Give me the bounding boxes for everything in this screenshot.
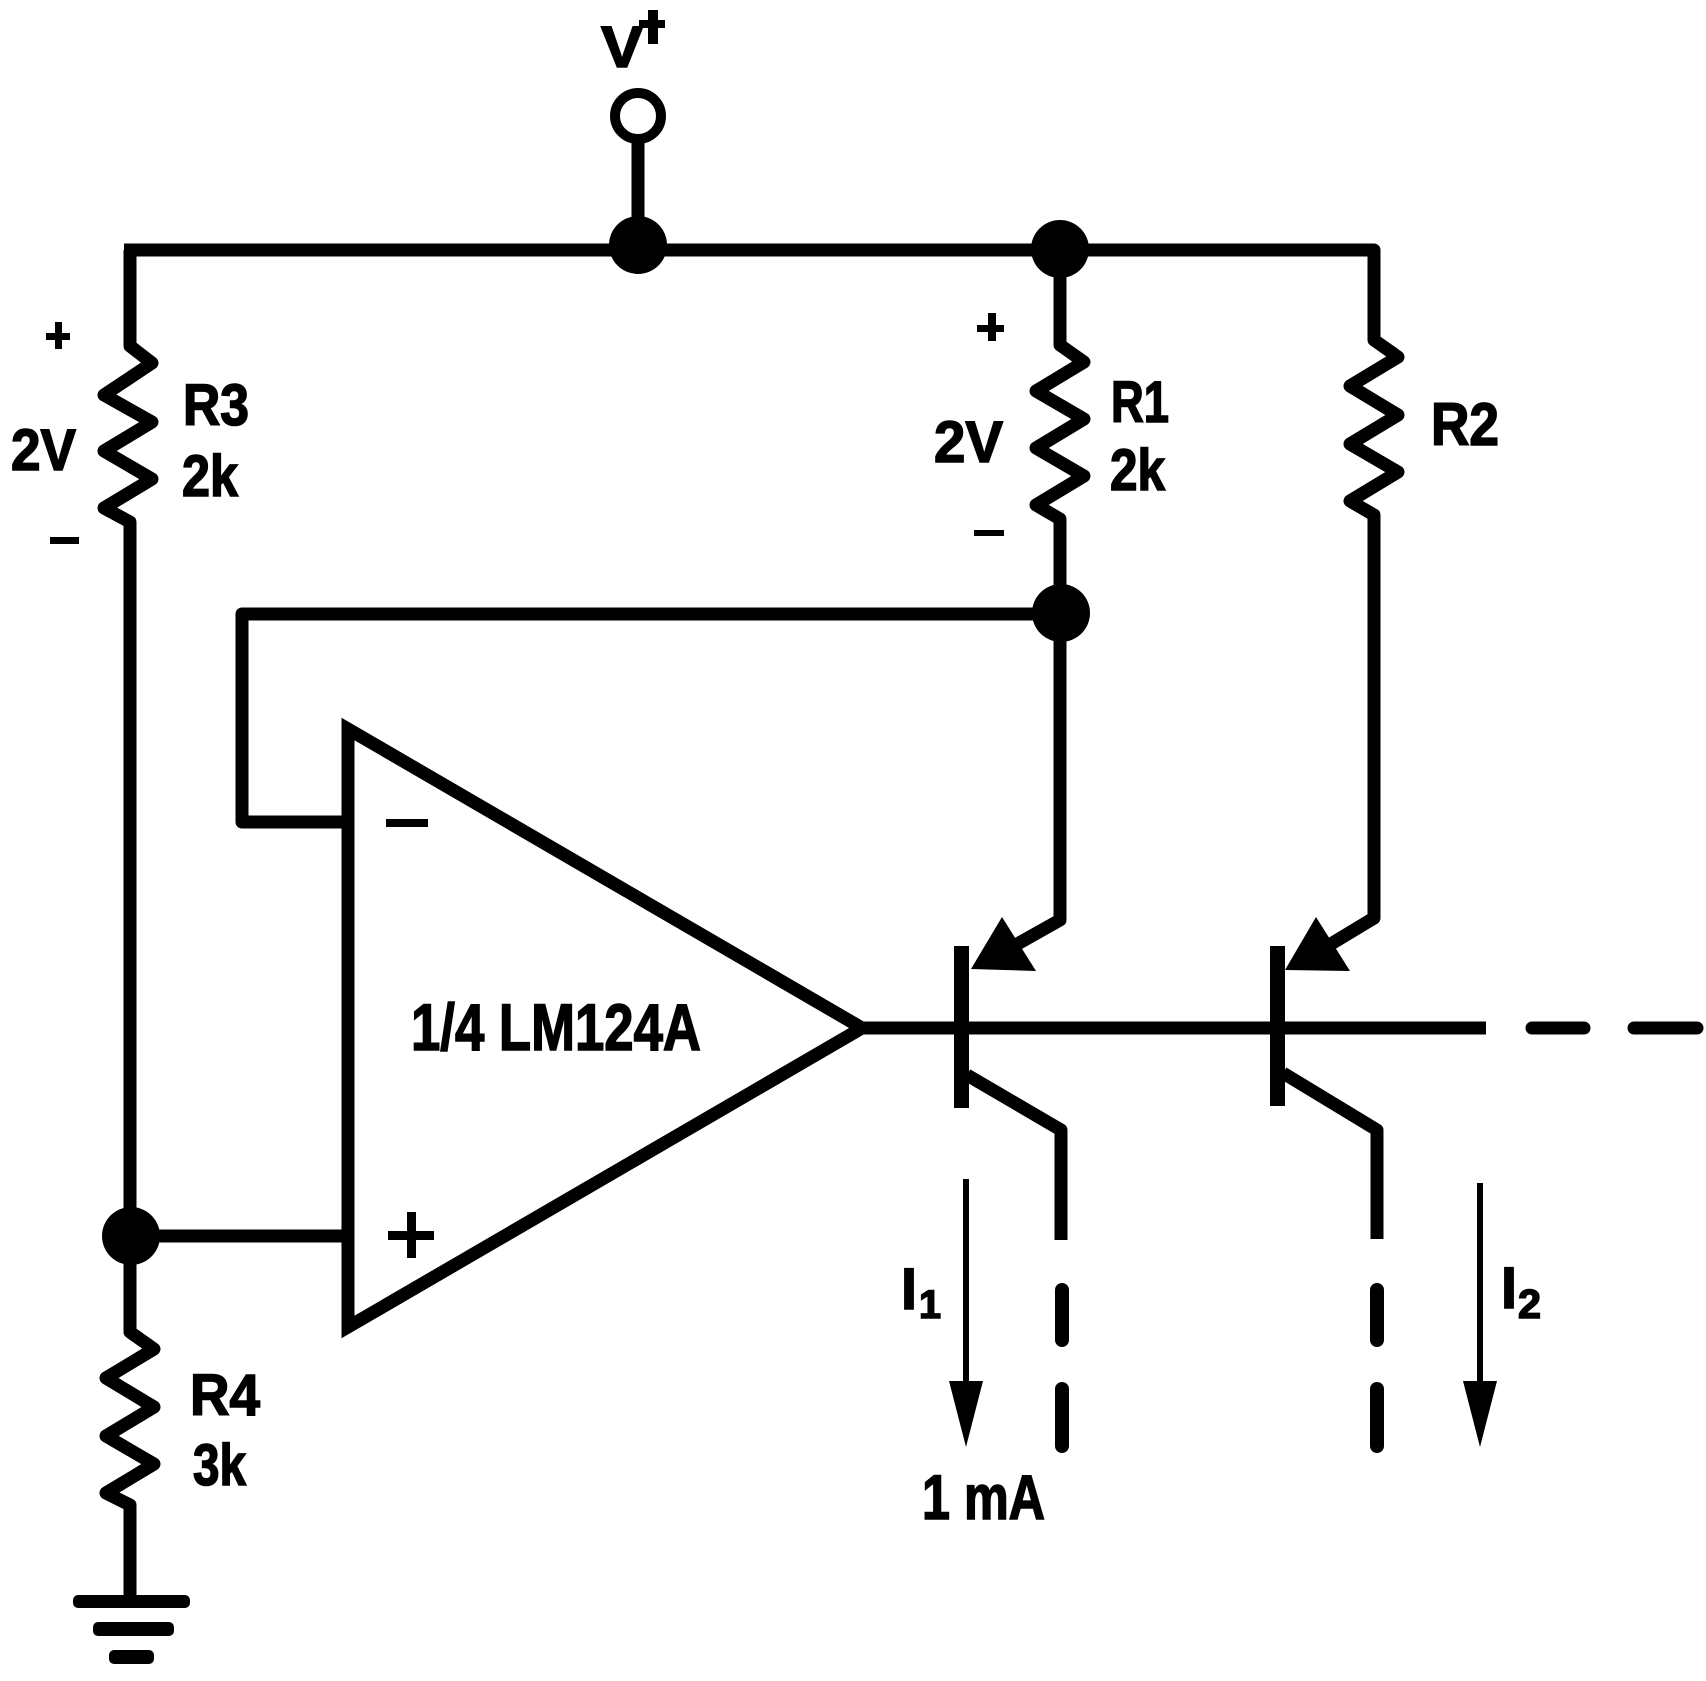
svg-text:R1: R1: [1111, 370, 1169, 435]
svg-text:R3: R3: [183, 373, 249, 438]
svg-text:I: I: [901, 1257, 917, 1322]
svg-text:R4: R4: [190, 1363, 260, 1428]
svg-text:1 mA: 1 mA: [922, 1463, 1045, 1533]
svg-text:3k: 3k: [193, 1433, 247, 1498]
svg-text:2k: 2k: [1110, 438, 1166, 503]
svg-text:R2: R2: [1431, 391, 1499, 458]
svg-text:2: 2: [1518, 1281, 1541, 1327]
svg-text:2V: 2V: [11, 418, 76, 483]
svg-text:I: I: [1501, 1256, 1517, 1321]
svg-text:V: V: [601, 15, 643, 80]
svg-text:2V: 2V: [934, 410, 1003, 475]
svg-text:1/4 LM124A: 1/4 LM124A: [411, 990, 701, 1064]
svg-text:1: 1: [919, 1283, 941, 1327]
svg-text:2k: 2k: [182, 444, 239, 509]
